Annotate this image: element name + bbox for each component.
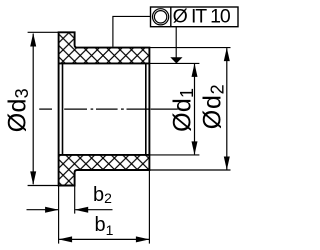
bore chamfer edge left (62, 63, 64, 154)
arrowhead d1 top (192, 63, 198, 77)
arrowhead d3 top (30, 33, 36, 47)
centerline dash 4 (127, 108, 149, 110)
section hatch lower cut (flange + body wall) (59, 155, 150, 186)
dimension line d3 (32, 34, 34, 185)
arrowhead d3 bottom (30, 171, 36, 185)
arrowhead b2 right (75, 207, 89, 213)
tolerance frame divider (170, 7, 172, 27)
centerline dash 5 (151, 108, 178, 110)
extension line left face down (58, 186, 60, 244)
arrowhead d2 bottom (224, 157, 230, 171)
datum triangle (170, 57, 182, 63)
dimension line b2 left tail (27, 209, 59, 211)
extension line body top right (149, 47, 230, 49)
arrowhead d1 bottom (192, 141, 198, 155)
arrowhead b1 right (136, 236, 150, 242)
extension line bore top right (149, 62, 199, 64)
svg-text:Ø IT 10: Ø IT 10 (173, 6, 231, 28)
section hatch upper cut (flange + body wall) (59, 32, 150, 63)
leader from frame to toleranced surface (113, 16, 151, 46)
extension line flange right face down (74, 186, 76, 214)
bore chamfer edge right (145, 63, 147, 154)
datum leader line (175, 27, 177, 58)
extension line body bottom right (149, 169, 230, 171)
bore bottom edge (59, 154, 150, 156)
dimension line d1 (194, 64, 196, 154)
concentricity symbol inner circle (154, 11, 166, 23)
bushing outline (flange and body profile) (59, 32, 150, 185)
arrowhead b2 left (45, 207, 59, 213)
bore top edge (59, 62, 150, 64)
concentricity symbol outer circle (153, 9, 169, 25)
extension line body right face down (148, 170, 150, 244)
arrowhead d2 top (224, 48, 230, 62)
tolerance frame box (151, 7, 239, 27)
arrowhead b1 left (59, 236, 73, 242)
dimension line d2 (226, 48, 228, 169)
centerline dash 1 (39, 108, 52, 110)
centerline dot 1 (91, 108, 94, 110)
dimension line b2 right tail (75, 209, 112, 211)
extension line flange top left (28, 31, 59, 33)
centerline dash 2 (64, 108, 87, 110)
extension line bore bottom right (149, 154, 199, 156)
extension line flange bottom left (28, 185, 59, 187)
centerline dash 3 (96, 108, 118, 110)
dimension line b1 (59, 238, 149, 240)
centerline dot 2 (121, 108, 124, 110)
